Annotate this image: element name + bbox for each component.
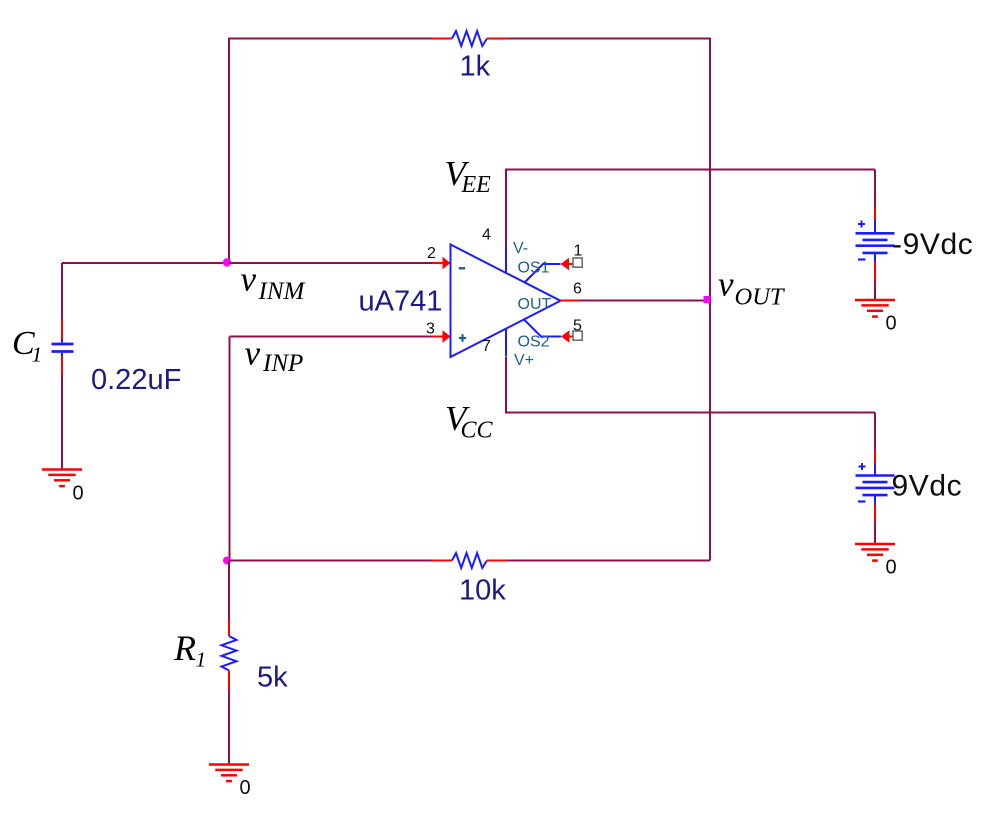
wire VEE vertical to pin 4 xyxy=(505,170,507,246)
resistor R1 top pin stub xyxy=(228,620,230,637)
wire R1 to ground xyxy=(228,691,230,765)
resistor R3 10k left pin stub xyxy=(432,560,452,562)
battery V1 top pin stub xyxy=(874,450,876,463)
svg-text:OS2: OS2 xyxy=(518,334,550,351)
capacitor C1 reference label xyxy=(12,325,42,367)
node VEE label xyxy=(445,154,492,198)
battery V2 plus mark xyxy=(858,221,865,228)
resistor R1 reference label xyxy=(173,628,206,672)
svg-text:4: 4 xyxy=(482,227,491,244)
svg-text:3: 3 xyxy=(426,321,435,338)
wire vINM to pin2 xyxy=(229,262,432,264)
svg-text:V-: V- xyxy=(513,240,528,257)
svg-text:5: 5 xyxy=(573,318,582,335)
capacitor C1 bottom pin stub xyxy=(61,356,63,375)
wire VCC vertical to pin 7 xyxy=(505,357,507,413)
battery V2 body xyxy=(856,220,895,262)
battery V2 top pin stub xyxy=(874,207,876,220)
svg-text:7: 7 xyxy=(482,338,491,355)
battery V1 minus mark xyxy=(858,500,866,502)
svg-text:INM: INM xyxy=(258,278,306,305)
pin 5 arrow xyxy=(561,330,570,342)
battery V1 bottom pin stub xyxy=(874,505,876,523)
wire vINP horizontal xyxy=(230,336,433,338)
resistor R1 zigzag xyxy=(222,636,237,671)
wire bottom rail left segment xyxy=(229,560,432,562)
svg-text:v: v xyxy=(241,260,257,299)
svg-text:R: R xyxy=(173,628,196,668)
svg-text:6: 6 xyxy=(573,281,582,298)
svg-text:V+: V+ xyxy=(514,352,534,369)
wire right rail vertical xyxy=(709,38,711,561)
svg-text:v: v xyxy=(718,265,734,304)
svg-text:9Vdc: 9Vdc xyxy=(892,470,963,503)
svg-text:10k: 10k xyxy=(459,575,506,607)
node vINP bottom junction dot xyxy=(223,557,231,565)
svg-text:0: 0 xyxy=(886,313,897,335)
resistor R3 10k zigzag xyxy=(452,553,487,568)
pin 3 arrow xyxy=(443,330,451,343)
svg-text:1: 1 xyxy=(32,343,43,367)
resistor R2 1k zigzag xyxy=(452,31,487,46)
pin 6 red stub xyxy=(561,300,581,302)
wire R1 top xyxy=(228,561,230,620)
wire C1 branch horizontal xyxy=(62,262,229,264)
op-amp OS2 lead xyxy=(524,320,561,337)
svg-text:uA741: uA741 xyxy=(359,286,443,318)
node vOUT label xyxy=(718,265,786,311)
pin 5 red stub xyxy=(570,336,574,338)
op-amp U1 triangle xyxy=(451,245,561,358)
node vOUT junction square xyxy=(704,296,711,303)
pin 1 terminal square xyxy=(573,258,582,267)
resistor R1 bottom pin stub xyxy=(228,671,230,692)
wire battery V2 to ground xyxy=(874,282,876,301)
svg-text:v: v xyxy=(245,334,261,373)
pin 3 red stub xyxy=(432,336,444,338)
op-amp pin 4 V- lead xyxy=(505,246,507,274)
wire vOUT horizontal xyxy=(580,300,710,302)
op-amp U1 plus sign xyxy=(459,334,466,342)
svg-text:OS1: OS1 xyxy=(518,260,550,277)
svg-text:0.22uF: 0.22uF xyxy=(91,364,181,396)
svg-text:-9Vdc: -9Vdc xyxy=(892,228,973,261)
svg-text:0: 0 xyxy=(240,777,251,799)
svg-text:5k: 5k xyxy=(257,662,288,694)
pin 1 arrow xyxy=(561,258,570,270)
pin 1 red stub xyxy=(569,263,573,265)
pin 2 arrow xyxy=(443,257,451,270)
svg-text:2: 2 xyxy=(427,245,436,262)
battery V2 minus mark xyxy=(858,258,866,260)
wire bottom rail right segment xyxy=(508,560,711,562)
pin 5 terminal square xyxy=(573,331,582,340)
wire battery V2 top xyxy=(874,170,876,208)
battery V1 plus mark xyxy=(859,463,866,470)
node vINM junction dot xyxy=(223,258,231,266)
ground 0 (C1) xyxy=(42,470,82,487)
ground 0 (V1) xyxy=(855,544,895,561)
node vINM label xyxy=(241,260,306,306)
wire vINP vertical xyxy=(229,337,231,561)
ground 0 (R1) xyxy=(209,765,249,782)
node vINP label xyxy=(245,334,304,378)
battery V1 body xyxy=(856,463,895,505)
wire top rail left segment xyxy=(228,38,432,40)
op-amp U1 minus sign xyxy=(459,267,465,269)
op-amp pin 7 V+ lead xyxy=(505,329,507,357)
svg-text:EE: EE xyxy=(461,172,492,198)
wire VCC rail xyxy=(505,412,875,414)
wire VEE rail xyxy=(505,169,875,171)
svg-text:OUT: OUT xyxy=(518,296,552,313)
resistor R2 1k right pin stub xyxy=(487,38,508,40)
node VCC label xyxy=(445,399,494,444)
resistor R2 1k left pin stub xyxy=(432,38,452,40)
op-amp OS1 lead xyxy=(525,264,561,283)
svg-text:OUT: OUT xyxy=(735,284,786,311)
svg-text:CC: CC xyxy=(461,418,494,444)
resistor R3 10k right pin stub xyxy=(487,560,508,562)
pin 2 red stub xyxy=(432,262,444,264)
svg-text:0: 0 xyxy=(73,483,84,505)
battery V2 bottom pin stub xyxy=(874,262,876,282)
capacitor C1 body xyxy=(52,340,74,357)
wire C1 top vertical xyxy=(61,263,63,320)
svg-text:1: 1 xyxy=(574,243,583,260)
svg-text:1: 1 xyxy=(196,648,207,672)
svg-text:1k: 1k xyxy=(460,51,491,83)
ground 0 (V2) xyxy=(855,300,895,317)
wire top-left vertical xyxy=(228,39,230,264)
svg-text:INP: INP xyxy=(262,350,303,377)
svg-text:0: 0 xyxy=(886,557,897,579)
wire top rail right segment xyxy=(508,38,711,40)
wire battery V1 to ground xyxy=(874,522,876,544)
wire battery V1 top xyxy=(874,413,876,451)
capacitor C1 top pin stub xyxy=(61,320,63,340)
wire C1 to ground xyxy=(61,375,63,470)
